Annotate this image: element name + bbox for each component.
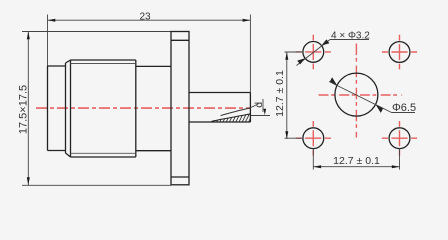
svg-text:17.5×17.5: 17.5×17.5: [18, 85, 30, 134]
svg-text:12.7 ± 0.1: 12.7 ± 0.1: [274, 70, 286, 117]
center circle crosshair: [319, 44, 403, 138]
bucket bore curve: [221, 108, 251, 116]
hole bottom-left crosshair: [296, 121, 331, 156]
centerline side view: [36, 107, 250, 109]
svg-text:23: 23: [139, 12, 151, 23]
hole bottom-right crosshair: [382, 121, 417, 156]
solder bucket terminal: [189, 93, 250, 123]
bucket section hatch: [206, 112, 254, 124]
svg-text:Φ6.5: Φ6.5: [392, 102, 416, 114]
hole top-left: [303, 42, 324, 63]
leader Phi6.5: [329, 77, 415, 113]
hole top-right: [389, 42, 410, 63]
connector front cylinder: [48, 66, 66, 151]
leader 4xPhi3.2: [297, 39, 370, 65]
dim 12.7 vertical: [285, 52, 303, 139]
dim 17.5x17.5: [22, 32, 171, 186]
hole top-left crosshair: [296, 35, 331, 70]
barrel: [136, 66, 171, 150]
svg-text:12.7 ± 0.1: 12.7 ± 0.1: [333, 155, 380, 167]
hex nut facet lines: [71, 64, 136, 154]
dim 23 line: [48, 15, 251, 93]
hex nut body: [66, 60, 136, 157]
hole top-right crosshair: [382, 35, 417, 70]
flange side view: [171, 32, 189, 185]
hole bottom-left: [303, 128, 324, 149]
svg-text:4 × Φ3.2: 4 × Φ3.2: [331, 31, 370, 42]
hole bottom-right: [389, 128, 410, 149]
svg-text:d: d: [253, 102, 265, 108]
dim 12.7 horizontal: [313, 149, 399, 170]
dim d: [250, 99, 270, 116]
center circle: [335, 73, 378, 116]
